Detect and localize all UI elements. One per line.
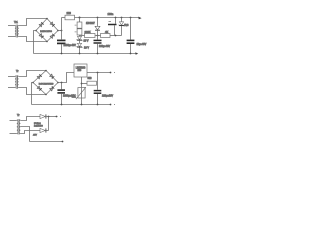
capacitor C4: [127, 18, 147, 54]
output mark: [60, 116, 61, 117]
node: [62, 141, 64, 143]
wire plus riser: [61, 18, 63, 54]
node: [130, 53, 132, 55]
node: [121, 17, 123, 19]
wire tap3 to D7: [20, 131, 40, 134]
diode D6: [40, 114, 58, 118]
wire center tap down: [20, 127, 29, 142]
bottom rail top circuit: [34, 53, 137, 55]
output tick top: [138, 17, 141, 20]
node: [79, 17, 81, 19]
output mark: [114, 104, 115, 105]
node: [115, 17, 117, 19]
svg-text:680: 680: [88, 77, 93, 80]
svg-text:2200µ+40V: 2200µ+40V: [64, 44, 77, 47]
svg-text:100n: 100n: [108, 12, 114, 16]
output tick bottom: [135, 52, 138, 55]
resistor R1: [65, 11, 75, 20]
wire output: [87, 72, 111, 74]
transformer TR3: [10, 113, 21, 135]
wire tap1 to D6: [20, 117, 40, 121]
zener ZD2: [77, 43, 89, 53]
capacitor C3 small: [108, 12, 117, 36]
svg-text:B250C3700: B250C3700: [40, 31, 52, 33]
svg-text:10 V: 10 V: [84, 40, 89, 43]
bottom rail middle circuit: [32, 104, 111, 106]
wire secondary bottom to bridge 2: [19, 88, 46, 95]
resistor R3: [75, 29, 82, 35]
node: [48, 116, 50, 118]
node: [61, 104, 63, 106]
svg-text:10 V: 10 V: [84, 47, 89, 50]
svg-text:220µ+16V: 220µ+16V: [102, 95, 113, 98]
svg-text:230K: 230K: [85, 30, 91, 34]
node: [97, 53, 99, 55]
wire top rail left: [62, 17, 66, 19]
svg-text:10µ+40V: 10µ+40V: [137, 43, 147, 46]
svg-text:40V: 40V: [33, 134, 37, 136]
node: [97, 17, 99, 19]
node: [61, 53, 63, 55]
bridge rectifier B1: [35, 18, 59, 43]
wire bridge minus down: [34, 31, 37, 54]
transformer TR2: [8, 69, 19, 89]
svg-text:1N4007: 1N4007: [86, 22, 95, 25]
wire top rail: [75, 17, 140, 19]
capacitor C2: [94, 40, 111, 53]
resistor R2: [75, 18, 82, 29]
svg-text:5V6: 5V6: [124, 24, 129, 27]
capacitor C6: [94, 91, 114, 105]
node: [81, 104, 83, 106]
svg-text:MG: MG: [78, 70, 82, 72]
transformer TR1: [8, 20, 19, 37]
resistor R6: [82, 77, 97, 85]
zener ZD1: [77, 35, 89, 43]
join wire D7 to D6: [48, 117, 50, 131]
wire secondary bottom to bridge: [19, 37, 47, 42]
node: [79, 53, 81, 55]
capacitor C1: [57, 40, 76, 47]
wire adj down: [81, 77, 83, 105]
zener ZD3: [119, 18, 129, 36]
node: [97, 72, 99, 74]
wire secondary top to bridge: [19, 19, 47, 26]
node: [61, 82, 63, 84]
svg-text:Tr: Tr: [17, 113, 19, 117]
capacitor C5: [57, 83, 75, 105]
wire bridge 2 plus: [58, 73, 74, 83]
regulator U1: [74, 64, 87, 77]
resistor R4: [80, 30, 101, 38]
output node end bottom: [110, 104, 112, 106]
svg-text:Tr: Tr: [16, 69, 18, 73]
wire secondary top to bridge 2: [19, 71, 46, 77]
node: [97, 35, 99, 37]
output mark: [114, 72, 115, 73]
diode D5 1N4007: [86, 18, 100, 40]
node: [130, 17, 132, 19]
wire bridge plus stub: [58, 30, 62, 32]
output node end: [110, 72, 112, 74]
node: [81, 83, 83, 85]
svg-text:LM78MG: LM78MG: [76, 67, 86, 69]
svg-text:10k: 10k: [72, 96, 77, 99]
svg-text:B40C2200/320: B40C2200/320: [39, 83, 54, 85]
resistor R5: [101, 30, 122, 38]
svg-text:Tr1: Tr1: [14, 20, 18, 24]
svg-text:4K: 4K: [105, 30, 108, 34]
diode D7: [40, 128, 49, 132]
return rail: [30, 141, 63, 143]
svg-text:2x1N400: 2x1N400: [34, 125, 44, 127]
node: [115, 35, 117, 37]
svg-text:100µ+40V: 100µ+40V: [99, 45, 110, 48]
svg-text:220: 220: [67, 11, 72, 15]
node: [56, 116, 58, 118]
wire bridge 2 minus: [32, 83, 34, 105]
bridge rectifier B2: [32, 70, 59, 96]
node: [97, 104, 99, 106]
wire output riser: [97, 73, 99, 90]
node plus: [61, 30, 63, 32]
potentiometer P1: [72, 87, 86, 99]
